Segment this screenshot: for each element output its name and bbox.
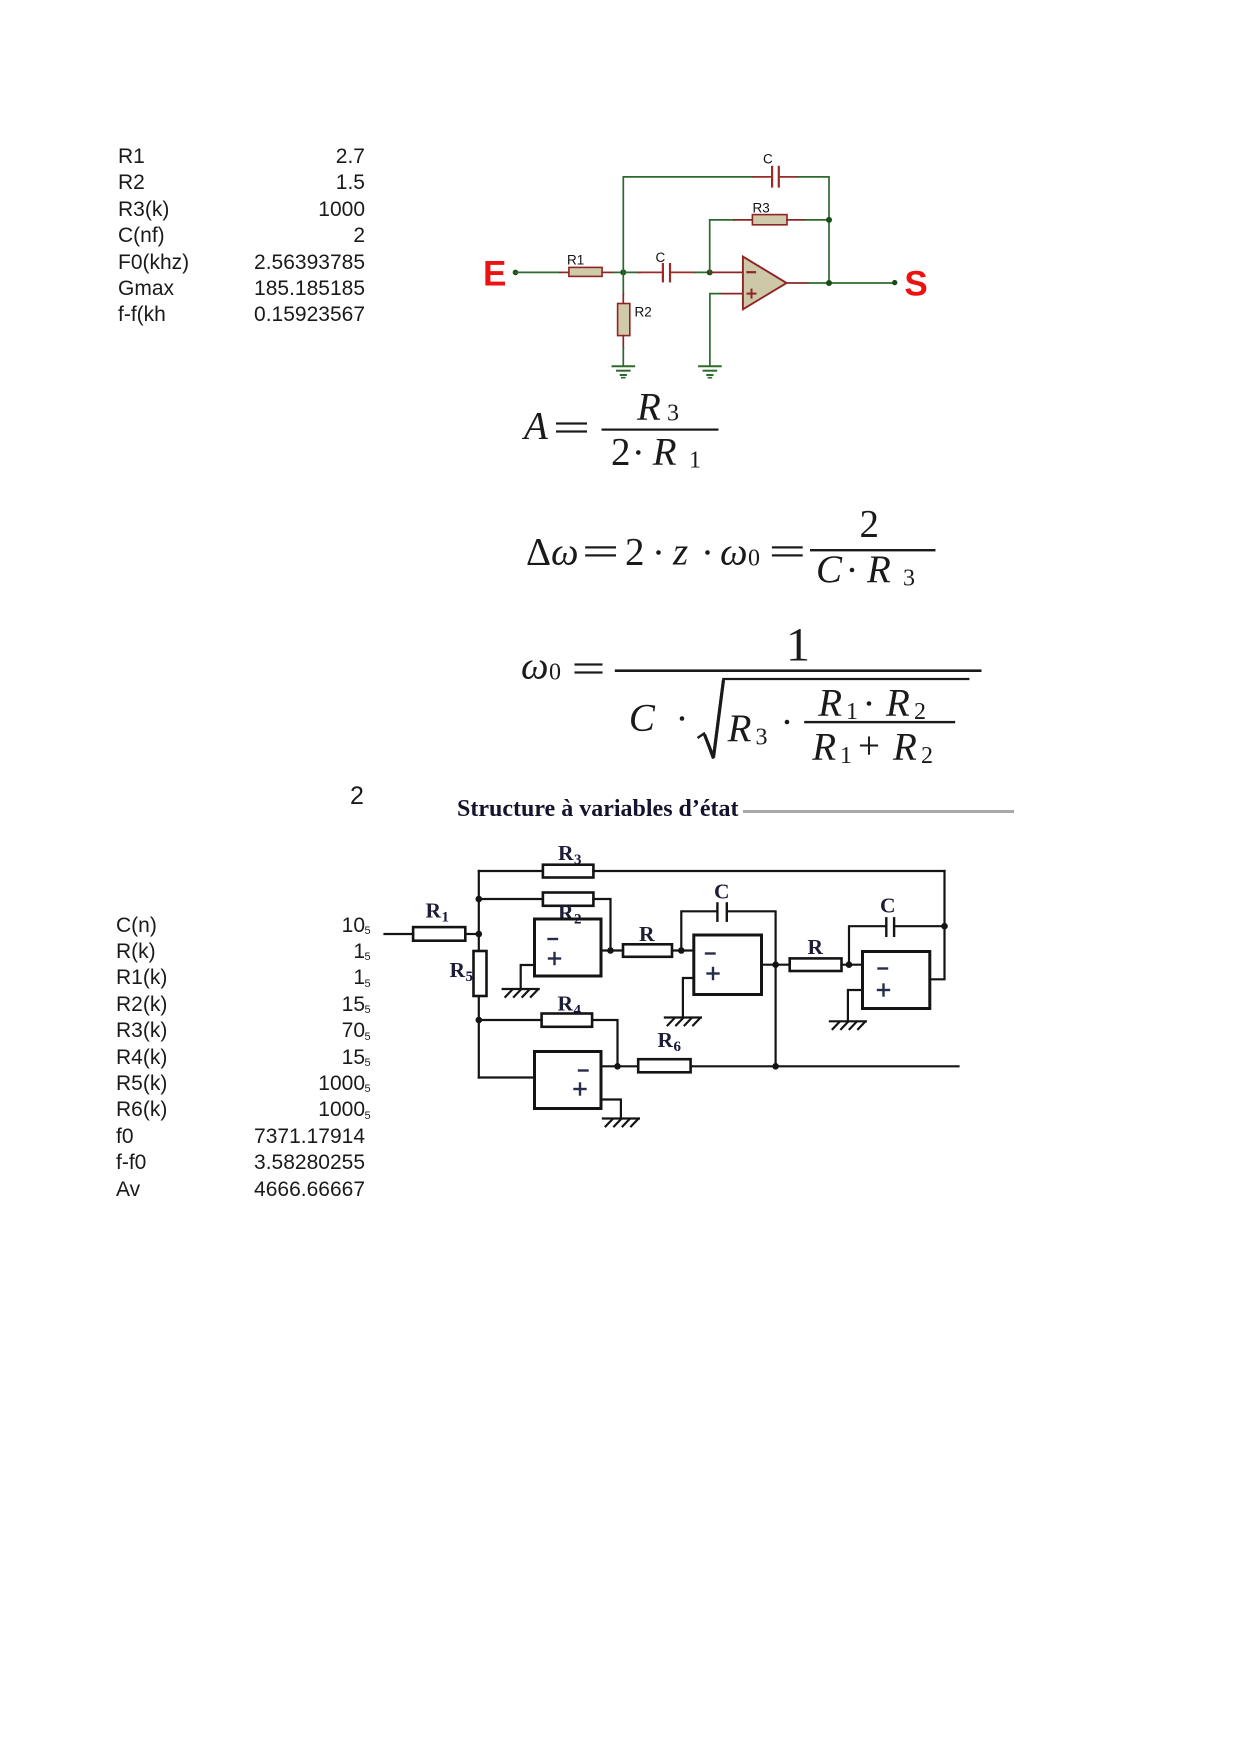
svg-text:C: C <box>629 697 656 740</box>
svg-text:R: R <box>450 958 466 982</box>
wire R2 to ground <box>622 336 624 366</box>
ground G2 <box>665 1018 701 1026</box>
node N1 dot <box>476 931 483 938</box>
ground G1 <box>503 989 539 997</box>
node S terminal dot <box>892 280 897 285</box>
resistor R mid2 <box>790 958 842 971</box>
label R5 <box>450 958 474 985</box>
label R3 <box>558 841 582 868</box>
svg-text:C: C <box>656 250 666 265</box>
label R6 <box>658 1028 682 1055</box>
svg-text:ω: ω <box>521 645 549 688</box>
svg-text:2: 2 <box>611 431 631 474</box>
svg-text:R: R <box>652 431 677 474</box>
label R mid2 <box>808 935 824 959</box>
wire node B to op-amp minus input <box>710 271 743 273</box>
resistor R4 <box>542 1014 593 1027</box>
wire R3 to right vertical <box>805 219 829 221</box>
node op1-out dot <box>607 947 614 954</box>
heading rule <box>743 810 1014 813</box>
wire plus input to ground <box>710 294 743 366</box>
svg-text:S: S <box>904 265 927 304</box>
wire op-amp2 plus to ground <box>683 978 694 1017</box>
wire R1 to node N1 <box>465 933 479 935</box>
wire op-amp4 to ground <box>601 1100 621 1118</box>
svg-text:R: R <box>808 935 824 959</box>
node N5 dot <box>846 961 853 968</box>
svg-text:2: 2 <box>921 743 933 769</box>
svg-text:4: 4 <box>574 1003 582 1019</box>
op-amp U4 <box>535 1052 602 1109</box>
svg-text:C: C <box>816 548 843 591</box>
wire cap to right vertical <box>798 177 829 283</box>
node B junction dot <box>707 269 713 275</box>
svg-text:2: 2 <box>914 699 926 725</box>
svg-text:R2: R2 <box>635 305 652 320</box>
op-amp U2 marks <box>706 954 719 980</box>
svg-text:0: 0 <box>549 660 561 686</box>
ground G3 <box>830 1021 866 1029</box>
wire R mid2 to op-amp3 <box>842 964 863 966</box>
svg-text:R: R <box>558 841 574 865</box>
op-amp U3 <box>863 952 930 1009</box>
wire cap to node B <box>695 271 710 273</box>
wire op-amp4 out to R6 <box>601 1065 638 1067</box>
svg-text:R: R <box>885 682 910 725</box>
wire left bus to op-amp4 input <box>479 1076 535 1078</box>
ground below op-amp <box>699 366 721 377</box>
node N7 dot R4 line <box>476 1017 483 1024</box>
resistor R5 <box>474 951 487 996</box>
svg-text:C: C <box>714 880 730 904</box>
capacitor C1 <box>681 903 775 964</box>
svg-text:A: A <box>521 405 548 448</box>
node N6 dot <box>941 923 948 930</box>
node E terminal dot <box>513 270 519 276</box>
wire input to R1 <box>385 933 414 935</box>
svg-text:1: 1 <box>786 619 810 672</box>
ground below R2 <box>613 366 635 377</box>
svg-text:2: 2 <box>625 531 645 574</box>
formula A = R3/(2·R1) <box>521 386 719 474</box>
wire N4 down to R6 line <box>774 965 776 1067</box>
svg-text:R: R <box>866 548 891 591</box>
svg-text:+: + <box>858 725 880 768</box>
op-amp U2 <box>694 935 762 995</box>
wire op-amp2 out <box>762 964 790 966</box>
label C2 <box>880 894 896 918</box>
resistor R6 <box>638 1059 690 1072</box>
label R2 <box>558 901 582 928</box>
node S terminal label <box>904 265 927 304</box>
wire op-amp3 plus to ground <box>848 990 863 1020</box>
wire op-amp1 out to R <box>601 949 623 951</box>
svg-text:1: 1 <box>840 743 852 769</box>
wire R2 to op-amp1 output node <box>593 899 610 951</box>
svg-text:3: 3 <box>574 852 582 868</box>
svg-text:ω: ω <box>551 531 579 574</box>
resistor R1 <box>413 927 465 941</box>
svg-text:0: 0 <box>748 546 760 572</box>
svg-text:R: R <box>811 726 836 769</box>
wire node A to input cap <box>623 271 640 273</box>
wire node A up to top feedback <box>623 177 753 273</box>
svg-text:6: 6 <box>674 1039 682 1055</box>
op-amp U4 marks <box>575 1071 588 1095</box>
svg-text:R: R <box>636 386 661 429</box>
svg-text:R: R <box>558 901 574 925</box>
svg-text:3: 3 <box>903 566 915 592</box>
svg-text:5: 5 <box>466 969 474 985</box>
svg-text:C: C <box>880 894 896 918</box>
svg-text:R1: R1 <box>567 253 584 268</box>
wire N7 to R4 <box>479 1019 542 1021</box>
svg-text:R3: R3 <box>753 201 770 216</box>
wire node B up to R3 <box>710 220 734 273</box>
resistor R3 <box>543 865 594 878</box>
wire node N2 to R2 <box>479 898 543 900</box>
capacitor C2 <box>849 918 945 964</box>
capacitor C input <box>638 250 695 282</box>
resistor R3 <box>734 201 805 225</box>
wire R1 to node A <box>602 271 623 273</box>
node N2 dot <box>476 896 483 903</box>
svg-text:R: R <box>658 1028 674 1052</box>
node N4 dot <box>772 961 779 968</box>
formula Delta-omega = 2 z w0 = 2/(C·R3) <box>526 503 936 592</box>
svg-text:E: E <box>483 255 506 294</box>
svg-text:ω: ω <box>720 531 748 574</box>
svg-text:R: R <box>426 899 442 923</box>
wire op-amp3 out feedback up <box>930 871 945 979</box>
formula w0 = 1/(C·sqrt(R3·R1R2/(R1+R2))) <box>521 619 982 769</box>
resistor R2 <box>543 893 594 906</box>
svg-text:1: 1 <box>689 448 701 474</box>
wire R to op-amp2 input <box>672 949 694 951</box>
svg-text:3: 3 <box>756 724 768 750</box>
wire R4 to op-amp4 output node <box>592 1020 617 1066</box>
section number 2 <box>350 784 364 809</box>
wire node A down to R2 <box>622 272 624 303</box>
op-amp U1 <box>743 257 787 310</box>
node R3-out junction dot <box>826 217 832 223</box>
wire op-amp output to S <box>787 282 895 284</box>
node op4-out dot <box>614 1063 621 1070</box>
wire R3 to right vertical <box>593 870 944 872</box>
svg-text:R: R <box>558 992 574 1016</box>
svg-text:3: 3 <box>667 401 679 427</box>
node E terminal label <box>483 255 506 294</box>
svg-text:2: 2 <box>860 503 880 546</box>
wire op-amp1 plus to ground <box>521 965 535 988</box>
svg-text:Δ: Δ <box>526 531 551 574</box>
label R4 <box>558 992 582 1019</box>
svg-text:C: C <box>763 152 773 167</box>
wire left vertical bus <box>478 871 480 1078</box>
label C1 <box>714 880 730 904</box>
op-amp U1 <box>535 919 602 976</box>
label R1 <box>426 899 450 926</box>
parameter table 1 <box>118 144 189 329</box>
wire top feedback to R3 <box>479 870 543 872</box>
op-amp U3 marks <box>878 969 889 996</box>
svg-text:R: R <box>727 707 752 750</box>
svg-text:z: z <box>672 531 688 574</box>
parameter table 2 <box>116 913 167 1203</box>
op-amp U1 marks <box>549 939 561 964</box>
node A junction dot <box>620 269 626 275</box>
svg-text:R: R <box>639 922 655 946</box>
node output junction dot <box>826 280 832 286</box>
ground G4 <box>603 1119 639 1127</box>
wire R6 to output <box>691 1065 959 1067</box>
node N8 dot <box>772 1063 779 1070</box>
svg-text:R: R <box>817 682 842 725</box>
capacitor C feedback top <box>753 152 797 188</box>
svg-text:R: R <box>892 726 917 769</box>
label R mid1 <box>639 922 655 946</box>
resistor R mid1 <box>623 944 672 957</box>
section heading: Structure à variables d'état <box>457 797 739 822</box>
resistor R1 <box>567 253 602 277</box>
resistor R2 <box>618 304 652 336</box>
svg-text:1: 1 <box>846 699 858 725</box>
node N3 dot <box>678 947 685 954</box>
wire E to R1 <box>516 271 569 273</box>
svg-text:1: 1 <box>442 910 450 926</box>
